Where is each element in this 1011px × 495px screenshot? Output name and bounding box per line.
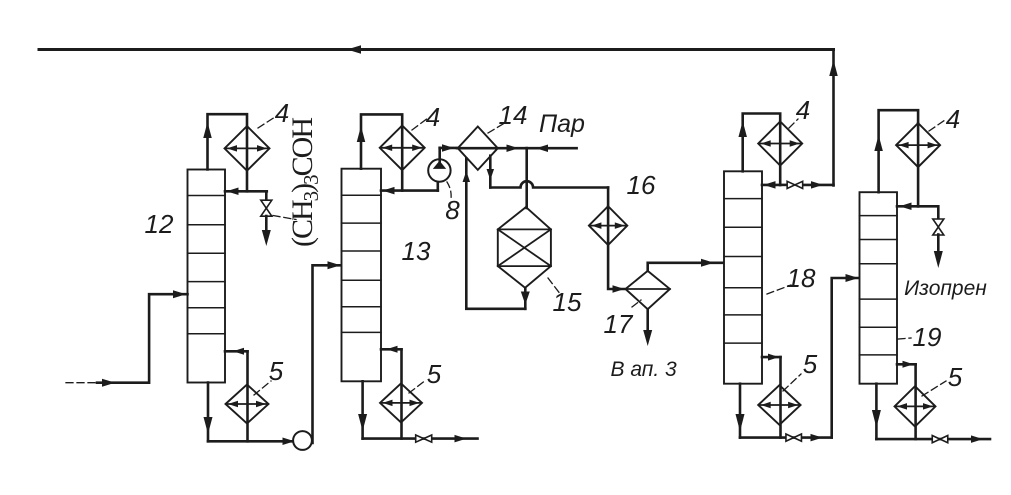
wire pump 8 discharge line [440,144,457,152]
wire recycle riser from valve line to header [829,50,838,186]
svg-text:14: 14 [499,100,528,130]
wire distillate branch (column 19) [918,206,938,219]
svg-text:5: 5 [427,359,442,389]
pump 8 [428,148,450,182]
leader to 8 [447,182,451,199]
wire separator 17 top outlet to column 18 feed [648,259,723,271]
svg-text:5: 5 [948,362,963,392]
valve on distillate (column 19) [933,219,944,235]
condenser 4 (column 19) [896,123,940,167]
wire isoprene product arrow [934,235,943,269]
svg-text:12: 12 [145,209,174,239]
wire bottoms arrow (column 18) [811,434,823,442]
wire distillate arrow down (column 12) [262,216,271,246]
reactor 15 [498,207,551,288]
wire column 13 reboiler draw [381,346,402,439]
svg-text:4: 4 [426,102,440,132]
label 5 (column 13) [427,359,442,389]
reboiler 5 (column 19) [895,386,936,426]
svg-text:15: 15 [553,287,582,317]
label 4 (column 12) [275,98,289,128]
leader dash to product name [273,216,296,220]
wire reflux into column 18 [762,181,780,189]
wire pump discharge to column 13 feed [313,261,341,443]
separator 17 [626,271,670,309]
wire reboiler 5 outlet (column 12) [0,0,1,1]
wire bottoms arrow (column 19) [971,435,983,443]
condenser 4 (column 13) [380,126,425,171]
label 15 [553,287,582,317]
wire exchanger 14 effluent out to cooler 16 [487,156,609,207]
label 8 [445,195,460,225]
leader to 14 [488,124,503,133]
svg-text:4: 4 [796,95,810,125]
leader to 5 (column 12) [254,381,271,395]
label 4 (column 18) [796,95,810,125]
leader to 5 (column 19) [922,381,946,396]
label 5 (column 12) [269,356,284,386]
valve on distillate (column 12) [261,200,272,216]
wire reflux into column 19 [897,203,918,211]
label 13 [402,236,431,266]
wire top recycle header [39,45,834,54]
wire condenser 4 outlet down (column 18) [779,122,782,185]
svg-text:13: 13 [402,236,431,266]
label 5 (column 19) [948,362,963,392]
leader to 18 [767,285,791,294]
wire column 19 overhead vapor line [874,110,918,192]
leader to 19 [898,338,911,339]
svg-text:В ап. 3: В ап. 3 [610,358,677,381]
column 19 (distillation column) [860,192,898,384]
condenser 4 (column 12) [225,126,270,171]
label Пар [539,110,585,138]
wire distillate branch down (column 12) [265,191,268,200]
valve on recycle line (column 18) [787,181,803,188]
wire condenser 4 outlet down (column 19) [917,124,920,207]
svg-text:18: 18 [787,263,816,293]
leader to 4 (column 12) [258,117,275,128]
label 5 (column 18) [803,349,818,379]
wire separator 17 bottom outlet [643,309,652,346]
leader to 4 (column 18) [789,119,798,128]
label В ап. 3 [610,358,677,381]
label 4 (column 13) [426,102,440,132]
wire column 13 overhead vapor line [357,114,402,168]
wire column 18 bottoms outlet [736,384,832,438]
reboiler 5 (column 18) [758,385,800,425]
label 18 [787,263,816,293]
wire column 12 overhead vapor line [203,114,247,169]
wire bottoms arrow (column 13) [455,435,467,443]
wire reactor 15 outlet loop to exchanger 14 [463,159,530,309]
label 17 [604,309,634,339]
reboiler 5 (column 12) [226,385,269,424]
wire reboiler 5 outlet (column 18) [0,0,1,1]
heat exchanger 14 (feed/effluent) [458,127,498,170]
column 18 (distillation column) [724,171,762,383]
label 14 [499,100,528,130]
wire feed riser to column 19 [832,274,859,438]
leader to 4 (column 19) [929,120,945,131]
wire condenser 4 outlet down (column 12) [246,127,249,191]
wire reboiler 5 outlet (column 19) [0,0,1,1]
wire line 14 to mixing tee [457,144,527,152]
label 4 (column 19) [946,104,960,134]
svg-text:(СН3)3СОН: (СН3)3СОН [286,118,323,247]
svg-text:5: 5 [803,349,818,379]
leader to 4 (column 13) [412,118,428,130]
column 13 (distillation column) [342,169,382,382]
wire condenser 4 outlet down (column 13) [401,127,404,191]
label 12 [145,209,174,239]
reboiler 5 (column 13) [380,383,422,422]
wire reactor feed downcomer [525,148,528,208]
label Изопрен [904,277,987,300]
wire column 18 reboiler draw [762,354,781,438]
label (CH3)3COH product [286,118,323,247]
wire column 13 bottoms outlet [358,381,477,438]
svg-text:Изопрен: Изопрен [904,277,987,300]
wire column 12 reboiler draw [225,348,248,442]
wire reflux into column 12 [225,188,267,196]
leader to 15 [548,278,561,295]
valve on bottoms line (column 18) [786,434,802,441]
label 16 [627,170,656,200]
wire steam (Пар) line [527,144,577,152]
wire column 19 reboiler draw [897,361,916,439]
svg-text:19: 19 [913,322,942,352]
cooler 16 [589,206,627,245]
svg-text:17: 17 [604,309,634,339]
column 12 (distillation column) [188,170,226,383]
valve on bottoms line (column 13) [416,435,432,442]
leader to 17 [632,300,641,307]
svg-text:8: 8 [445,195,460,225]
wire reflux into column 13 and draw to pump 8 [381,180,438,194]
wire column 19 bottoms outlet [872,384,990,439]
svg-text:Пар: Пар [539,110,585,138]
label 19 [913,322,942,352]
pump (bottoms pump after column 12) [293,431,312,450]
wire column 18 overhead vapor line [738,114,780,172]
valve on bottoms line (column 19) [932,436,948,443]
svg-text:4: 4 [946,104,960,134]
wire column 12 bottoms outlet [204,383,295,446]
wire distillate to recycle (column 18) [780,181,833,189]
leader to 5 (column 13) [409,380,426,393]
wire cooler 16 outlet to separator 17 [608,207,624,293]
condenser 4 (column 18) [758,122,802,166]
wire feed line to column 12 [66,290,188,387]
svg-text:16: 16 [627,170,656,200]
leader to 5 (column 18) [783,374,801,391]
